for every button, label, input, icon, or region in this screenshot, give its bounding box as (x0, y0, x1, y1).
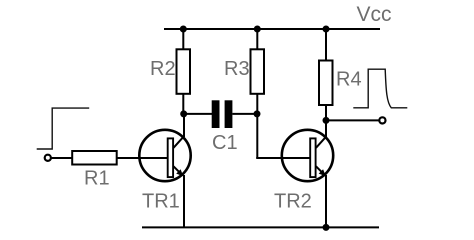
output pulse waveform annotation (353, 69, 407, 108)
svg-text:C1: C1 (212, 132, 238, 154)
svg-text:Vcc: Vcc (357, 3, 392, 26)
output terminal (379, 117, 385, 123)
wire: R2 bottom lead to collector node (182, 94, 184, 114)
wire: input terminal to R1 (52, 157, 73, 159)
node: TR2 emitter ground junction (323, 224, 330, 231)
ground rail wire (142, 226, 379, 228)
wire: C1 left lead (184, 113, 212, 115)
wire: TR2 collector lead (325, 120, 327, 137)
svg-text:TR2: TR2 (274, 190, 312, 212)
wire: R4 bottom lead to output node (325, 105, 327, 121)
wire: TR1 collector lead (183, 113, 185, 137)
svg-text:R3: R3 (224, 58, 250, 80)
node: R2 top junction (180, 26, 187, 33)
transistor TR2 (282, 130, 333, 181)
wire: R3 bottom lead down to TR2 base row (256, 94, 258, 158)
svg-text:R1: R1 (84, 168, 110, 190)
wire: TR2 emitter lead (325, 175, 327, 227)
svg-text:R4: R4 (336, 68, 362, 90)
capacitor C1 (212, 100, 233, 128)
wire: R1 to TR1 base (117, 157, 169, 159)
wire: R3 top lead (256, 29, 258, 49)
node: R4 top junction (323, 26, 330, 33)
node: TR2 collector / output junction (323, 117, 330, 124)
wire: output wire to terminal (326, 119, 379, 121)
resistor R3 (251, 49, 265, 94)
wire: TR2 base wire (256, 157, 311, 159)
wire: R2 top lead (182, 29, 184, 49)
node: R3 top junction (254, 26, 261, 33)
resistor R1 (72, 151, 117, 165)
svg-text:R2: R2 (150, 58, 176, 80)
input step waveform annotation (37, 108, 89, 149)
wire: TR1 emitter lead (183, 175, 185, 227)
node: TR1 collector / C1 left junction (180, 110, 187, 117)
wire: C1 right lead (232, 113, 257, 115)
resistor R4 (319, 61, 333, 106)
node: R3 bottom / C1 right junction (254, 110, 261, 117)
transistor TR1 (139, 130, 190, 181)
Vcc rail wire (164, 28, 380, 30)
wire: R4 top lead (325, 29, 327, 60)
svg-text:TR1: TR1 (142, 190, 180, 212)
input terminal (45, 155, 51, 161)
resistor R2 (177, 49, 191, 94)
